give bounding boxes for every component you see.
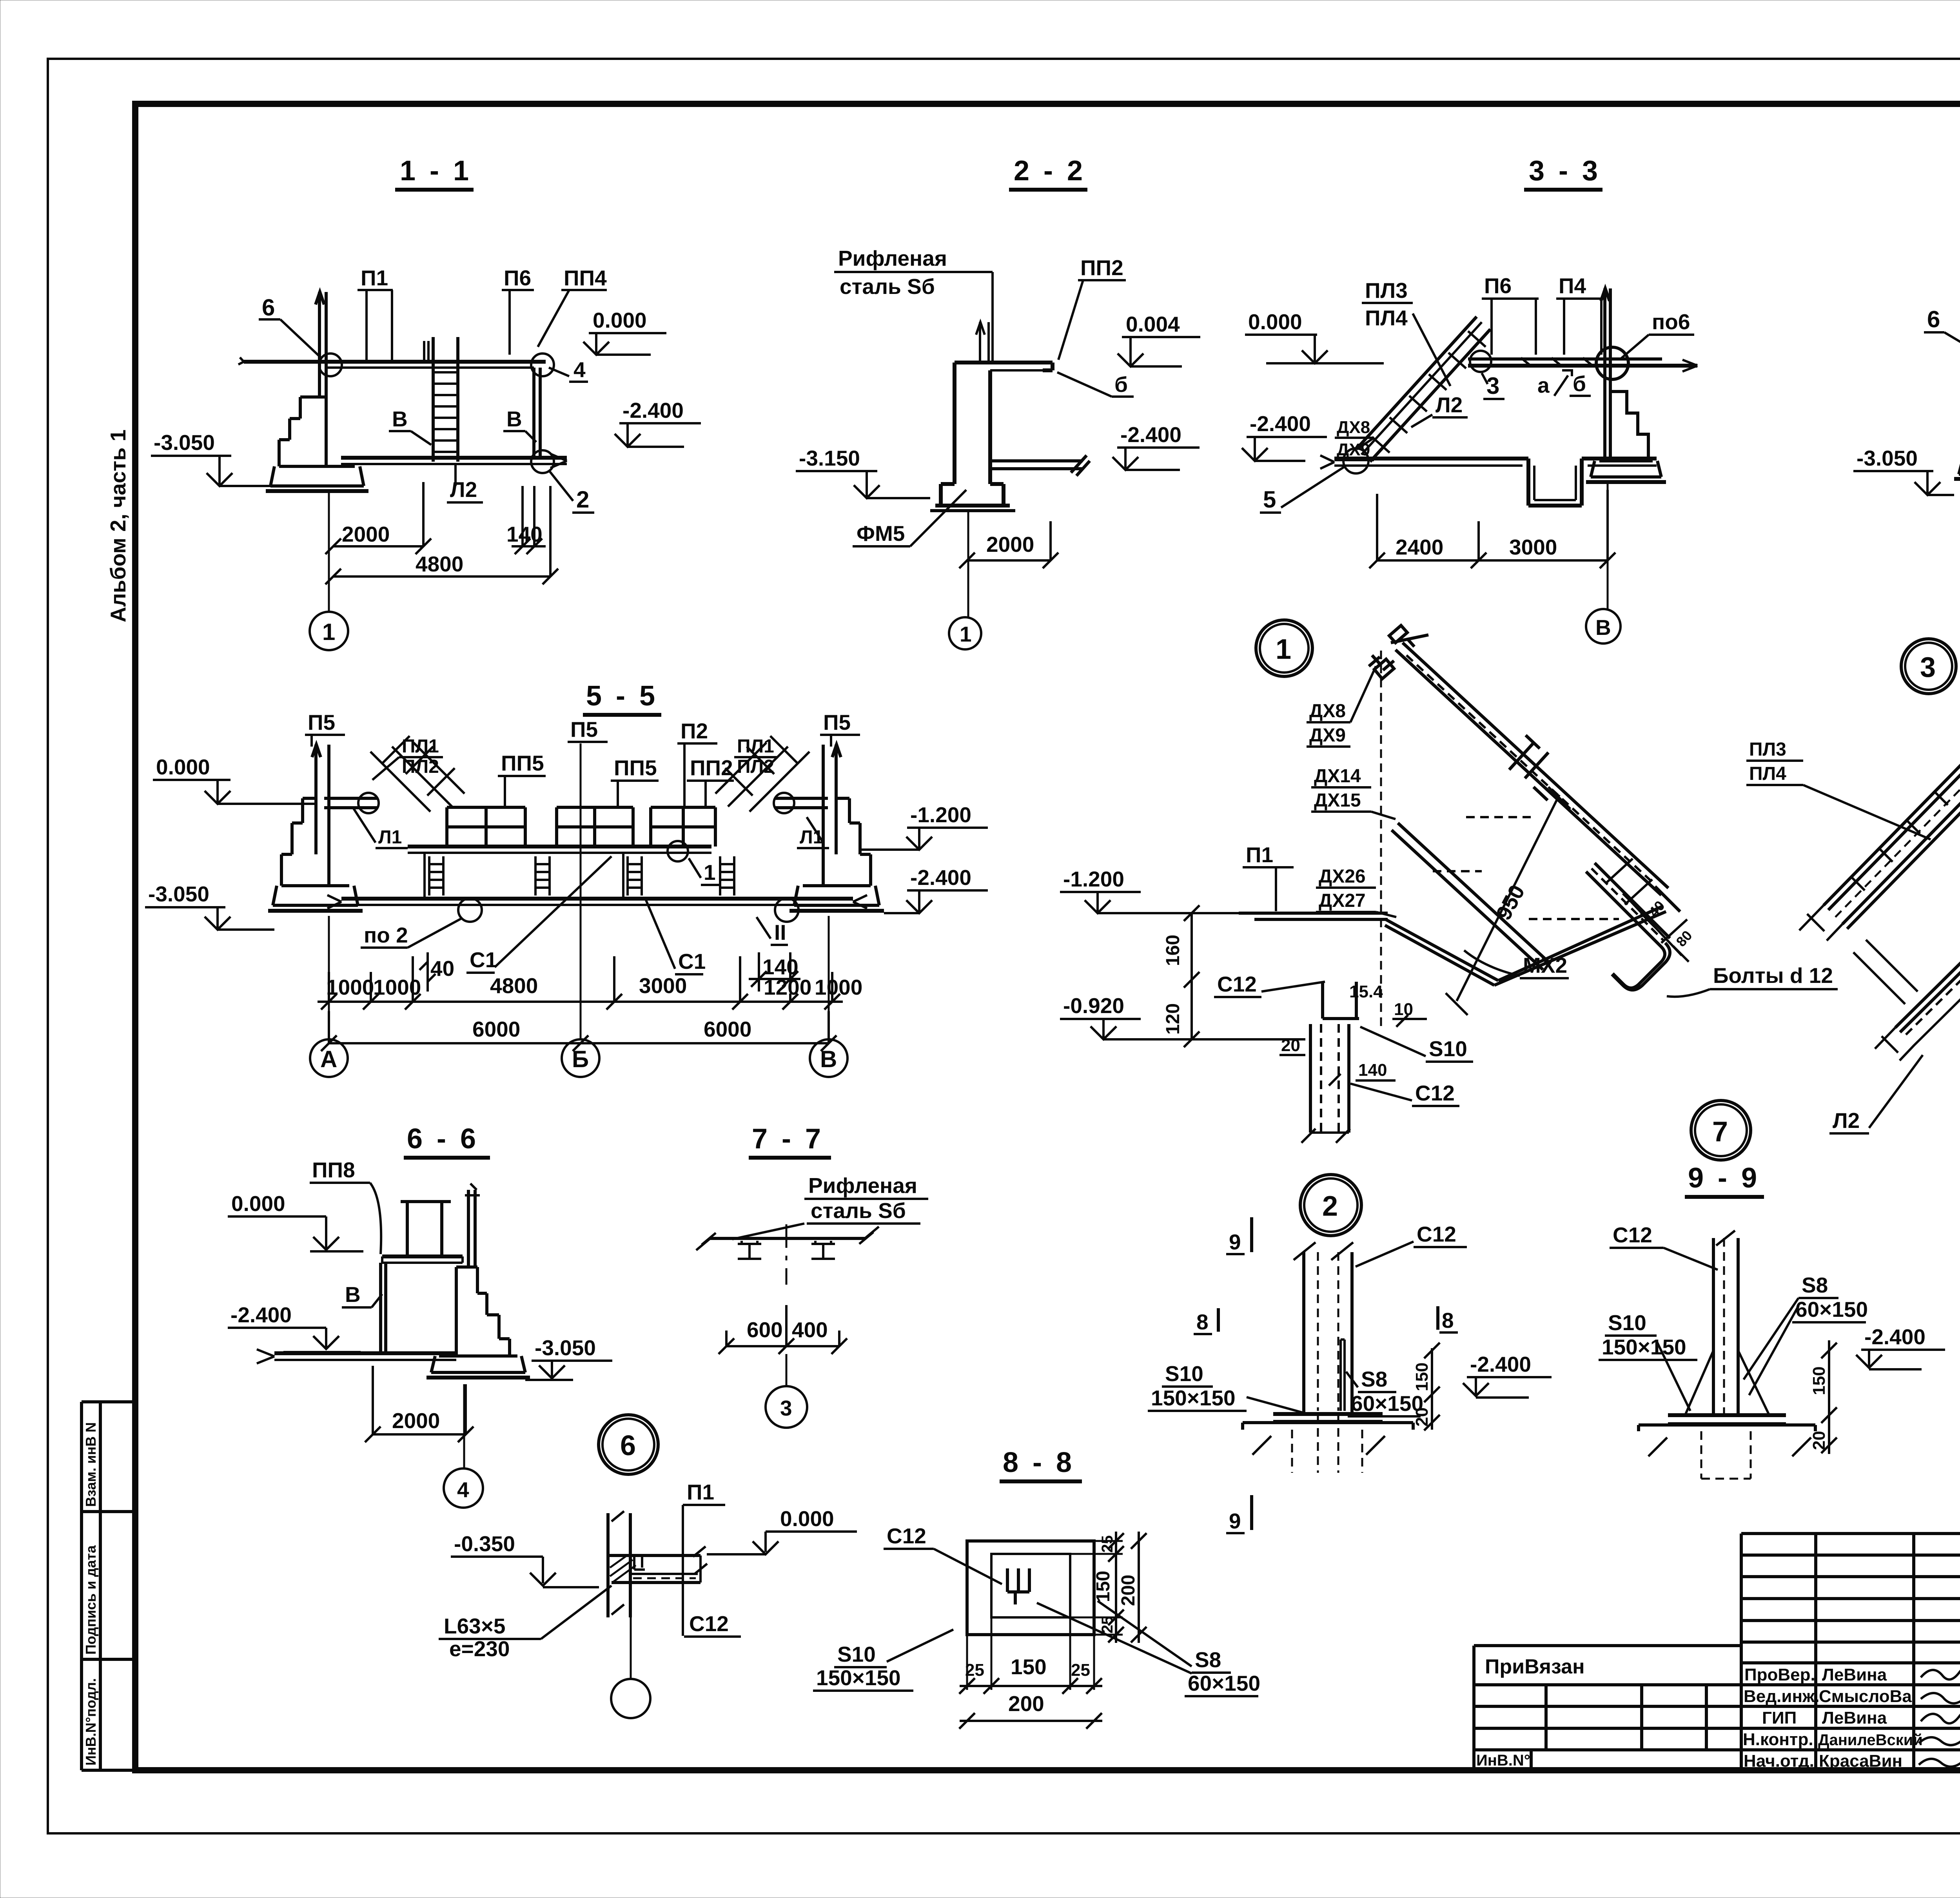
axis circle Б: [562, 1039, 599, 1077]
signature table: [1741, 1534, 1960, 1770]
mast: [316, 292, 326, 362]
signatures squiggles: [1921, 1666, 1960, 1679]
svg-text:1200: 1200: [764, 975, 811, 999]
joint circle right: [531, 353, 554, 376]
G_S55 section 5-5: [145, 680, 988, 1077]
svg-text:10: 10: [1394, 1000, 1413, 1019]
svg-text:а: а: [1537, 373, 1550, 397]
svg-text:ПЛ3: ПЛ3: [1749, 739, 1786, 760]
svg-text:ПП5: ПП5: [501, 751, 544, 775]
ladder dashed centerline: [1835, 701, 1960, 917]
svg-text:-3.150: -3.150: [799, 446, 860, 470]
left bracket: [324, 798, 377, 808]
svg-text:S8: S8: [1195, 1648, 1221, 1672]
svg-text:С12: С12: [1417, 1222, 1456, 1246]
svg-text:200: 200: [1118, 1575, 1139, 1606]
svg-text:-3.050: -3.050: [535, 1336, 596, 1360]
svg-text:П5: П5: [570, 717, 598, 741]
lower parallel stringer: [1895, 888, 1960, 1032]
vertical dash axis: [1380, 651, 1382, 1027]
svg-text:П5: П5: [823, 710, 851, 734]
left mast: [312, 745, 329, 854]
axis circle А: [310, 1039, 348, 1077]
svg-text:60×150: 60×150: [1795, 1297, 1868, 1322]
centerline: [786, 1224, 788, 1285]
svg-text:ЛеВина: ЛеВина: [1822, 1708, 1887, 1728]
floor: [274, 1351, 456, 1355]
svg-text:6000: 6000: [472, 1017, 520, 1041]
svg-text:ДХ8: ДХ8: [1309, 701, 1346, 721]
svg-text:Л1: Л1: [378, 827, 402, 848]
svg-text:П1: П1: [1246, 843, 1273, 867]
svg-text:ДХ14: ДХ14: [1314, 766, 1361, 787]
diagonal ladder: [1356, 317, 1490, 462]
svg-text:S10: S10: [1608, 1311, 1646, 1335]
svg-text:-2.400: -2.400: [1120, 422, 1181, 447]
svg-text:2000: 2000: [392, 1409, 440, 1433]
wall body: [955, 363, 990, 484]
svg-text:2: 2: [576, 486, 589, 513]
svg-text:400: 400: [792, 1318, 828, 1342]
svg-text:-2.400: -2.400: [910, 865, 971, 890]
G_S11 section 1-1: [151, 155, 701, 650]
axis line and circle 4: [463, 1384, 465, 1469]
right foundation: [794, 798, 879, 905]
pallet box 2: [557, 807, 633, 847]
svg-text:4800: 4800: [490, 973, 538, 998]
svg-text:8: 8: [1442, 1308, 1454, 1332]
joint circle floor left: [1343, 448, 1368, 473]
svg-text:В: В: [392, 407, 408, 431]
svg-text:0.000: 0.000: [231, 1191, 285, 1216]
axis line and circle В: [1607, 482, 1609, 609]
tall mast: [468, 1190, 475, 1267]
svg-text:3: 3: [780, 1396, 792, 1420]
bottom chord up to stringer end: [1494, 886, 1680, 985]
svg-text:-3.050: -3.050: [154, 430, 215, 455]
vertical dim 150 20: [1821, 1340, 1837, 1454]
svg-text:Подпись и дата: Подпись и дата: [83, 1545, 99, 1655]
svg-text:С12: С12: [689, 1612, 729, 1636]
joint circle bottom right: [531, 450, 554, 473]
hidden dashed edges: [1433, 817, 1619, 919]
svg-text:ГИП: ГИП: [1762, 1708, 1797, 1728]
svg-text:3000: 3000: [639, 973, 687, 998]
right column: [1605, 355, 1610, 461]
svg-text:СмыслоВа: СмыслоВа: [1819, 1687, 1912, 1706]
svg-text:8 - 8: 8 - 8: [1003, 1447, 1075, 1478]
svg-text:5: 5: [1263, 486, 1276, 513]
svg-text:-0.920: -0.920: [1063, 993, 1124, 1018]
svg-text:С12: С12: [1613, 1223, 1652, 1247]
foundation steps: [279, 397, 326, 466]
svg-text:ПЛ4: ПЛ4: [1365, 306, 1408, 330]
svg-text:В: В: [1595, 615, 1611, 640]
svg-text:4800: 4800: [416, 552, 463, 576]
floor joint circle right: [775, 898, 799, 922]
svg-text:3: 3: [1920, 652, 1936, 683]
ladder: [433, 337, 458, 462]
svg-text:ПроВер.: ПроВер.: [1744, 1665, 1815, 1684]
svg-text:5 - 5: 5 - 5: [586, 680, 658, 712]
svg-text:1: 1: [1276, 634, 1291, 665]
svg-text:150: 150: [1011, 1655, 1047, 1679]
svg-text:S10: S10: [1429, 1037, 1467, 1061]
svg-text:600: 600: [747, 1318, 783, 1342]
deck bend diagonal: [1385, 919, 1498, 985]
main beam: [1468, 357, 1662, 361]
beam line: [710, 1237, 865, 1240]
svg-text:С12: С12: [887, 1524, 926, 1548]
pallet box 3: [651, 807, 715, 847]
svg-text:Нач.отд.: Нач.отд.: [1744, 1751, 1814, 1771]
svg-text:25: 25: [1099, 1535, 1116, 1553]
connectors between flights: [1853, 940, 1918, 1004]
svg-text:II: II: [774, 920, 786, 944]
svg-text:0.000: 0.000: [593, 308, 647, 332]
svg-text:-3.050: -3.050: [148, 882, 209, 906]
svg-text:Болты d 12: Болты d 12: [1713, 963, 1833, 988]
sidebar cells: [82, 1402, 135, 1770]
svg-text:В: В: [820, 1046, 837, 1072]
inner rect: [991, 1554, 1070, 1617]
svg-text:ПП8: ПП8: [312, 1158, 355, 1182]
svg-text:б: б: [1573, 372, 1586, 396]
svg-text:Л2: Л2: [1833, 1108, 1860, 1133]
svg-text:по6: по6: [1652, 310, 1690, 334]
G_S44 section 4-4: [1853, 155, 1960, 694]
right foundation steps: [456, 1267, 510, 1356]
base plate: [1273, 1412, 1383, 1416]
svg-text:П1: П1: [361, 266, 388, 290]
node circle 7: [1691, 1100, 1751, 1160]
svg-text:Б: Б: [572, 1046, 589, 1072]
I profile left: [738, 1241, 761, 1259]
svg-text:0.000: 0.000: [1248, 310, 1302, 334]
bolt channel piece: [1586, 863, 1670, 990]
svg-text:6: 6: [262, 294, 275, 321]
svg-text:ИнВ.N°: ИнВ.N°: [1476, 1752, 1530, 1769]
node circle 3: [1901, 639, 1956, 694]
svg-text:е=230: е=230: [449, 1637, 510, 1661]
G_TITLEBLOCK: [1474, 1534, 1960, 1773]
axis line and circle 1: [967, 511, 969, 618]
centerline and circle: [630, 1617, 632, 1679]
column: [1713, 1238, 1738, 1415]
svg-text:С1: С1: [678, 949, 706, 973]
vertical dims 120 160: [1184, 905, 1200, 1047]
svg-text:П6: П6: [1484, 274, 1512, 298]
svg-text:-0.350: -0.350: [454, 1532, 515, 1556]
svg-text:ПП2: ПП2: [1080, 256, 1123, 280]
gussets: [1686, 1351, 1769, 1414]
svg-text:ПриВязан: ПриВязан: [1485, 1655, 1585, 1678]
svg-text:Н.контр.: Н.контр.: [1743, 1730, 1813, 1749]
svg-text:-2.400: -2.400: [622, 398, 684, 422]
svg-text:150: 150: [1809, 1367, 1829, 1395]
svg-text:25: 25: [1071, 1661, 1090, 1680]
svg-text:-2.400: -2.400: [1470, 1352, 1531, 1376]
svg-text:8: 8: [1196, 1310, 1209, 1334]
G_S66 section 6-6: [228, 1123, 658, 1508]
svg-text:3000: 3000: [1509, 535, 1557, 559]
svg-text:С1: С1: [470, 948, 497, 972]
svg-text:ФМ5: ФМ5: [857, 521, 905, 546]
right dims: [1070, 1541, 1123, 1635]
node circle 2: [1300, 1175, 1361, 1236]
svg-text:Альбом 2, часть 1: Альбом 2, часть 1: [106, 430, 130, 622]
small bracket: [634, 1557, 645, 1570]
top bracket pieces: [1369, 655, 1394, 679]
left foundation: [273, 798, 358, 905]
svg-text:сталь Sб: сталь Sб: [840, 274, 935, 299]
svg-text:-2.400: -2.400: [1864, 1325, 1926, 1349]
svg-text:П5: П5: [308, 710, 335, 734]
left post below: [381, 1263, 386, 1353]
outer rect: [967, 1541, 1094, 1635]
node circle 1: [1256, 620, 1312, 676]
foundation slab: [1639, 1425, 1815, 1431]
svg-text:9: 9: [1229, 1509, 1241, 1533]
svg-text:6: 6: [620, 1430, 636, 1461]
svg-text:П2: П2: [681, 719, 708, 743]
svg-text:ПП5: ПП5: [614, 756, 657, 780]
svg-text:950: 950: [1491, 881, 1530, 924]
svg-text:200: 200: [1008, 1691, 1044, 1716]
right mast: [823, 745, 841, 854]
svg-text:S8: S8: [1361, 1367, 1387, 1391]
G_N6 node 6 detail: [439, 1480, 857, 1718]
anchor symbol: [1007, 1568, 1029, 1604]
svg-text:ПП4: ПП4: [564, 266, 607, 290]
svg-text:Л2: Л2: [1436, 393, 1463, 417]
column under deck: [1310, 982, 1359, 1133]
foundation base trapezoid: [270, 466, 364, 486]
svg-text:9 - 9: 9 - 9: [1688, 1162, 1760, 1194]
svg-text:Взам. инВ N: Взам. инВ N: [83, 1422, 99, 1507]
svg-text:по 2: по 2: [364, 923, 408, 947]
svg-text:120: 120: [1163, 1003, 1183, 1035]
G_S88 section 8-8: [813, 1447, 1260, 1729]
floor slab right: [990, 455, 1090, 476]
right foundation steps: [1610, 392, 1648, 461]
svg-text:-2.400: -2.400: [230, 1303, 292, 1327]
hanger strips below deck: [425, 853, 443, 899]
svg-text:S8: S8: [1802, 1273, 1828, 1297]
wall top ledge: [955, 363, 1053, 370]
svg-text:160: 160: [1163, 935, 1183, 966]
svg-text:-3.050: -3.050: [1857, 446, 1918, 470]
G_S77 section 7-7: [696, 1123, 928, 1428]
svg-text:2 - 2: 2 - 2: [1014, 155, 1086, 187]
svg-text:25: 25: [1099, 1616, 1116, 1634]
svg-text:Рифленая: Рифленая: [838, 246, 947, 270]
joint circle big: [1596, 347, 1628, 379]
svg-text:150: 150: [1093, 1571, 1114, 1602]
svg-text:2000: 2000: [986, 532, 1034, 557]
svg-text:С12: С12: [1415, 1081, 1455, 1105]
svg-text:ИнВ.N°подл.: ИнВ.N°подл.: [83, 1678, 99, 1766]
I profile right: [811, 1241, 835, 1259]
joint circle small: [1470, 351, 1491, 372]
foundation mast legs: [319, 362, 326, 397]
bolt dims 40 80: [1605, 859, 1689, 962]
svg-text:7: 7: [1712, 1116, 1728, 1148]
diagonal beam top: [1396, 643, 1668, 895]
axis line and circle 1: [328, 491, 330, 612]
G_N1 node 1: [1060, 620, 1838, 1236]
svg-text:П1: П1: [687, 1480, 714, 1504]
svg-text:1 - 1: 1 - 1: [400, 155, 472, 187]
ladder lower end extension: [1799, 905, 1842, 941]
svg-text:ДХ8: ДХ8: [1337, 418, 1370, 437]
platform slab: [382, 1254, 463, 1258]
left diagonal panel: [370, 736, 465, 812]
ladder rail 2: [1842, 708, 1960, 929]
svg-text:6 - 6: 6 - 6: [407, 1123, 479, 1155]
svg-text:S10: S10: [1165, 1361, 1203, 1386]
svg-text:150×150: 150×150: [1602, 1335, 1686, 1359]
G_N7 node 7 section 9-9: [1599, 1100, 1945, 1479]
svg-text:2: 2: [1322, 1191, 1338, 1222]
ladder rungs: [1851, 707, 1960, 890]
svg-text:б: б: [1114, 372, 1128, 397]
svg-text:ДХ26: ДХ26: [1319, 866, 1366, 887]
base plate: [1668, 1413, 1786, 1417]
horizontal slab: [609, 1555, 701, 1583]
svg-text:20: 20: [1809, 1431, 1829, 1450]
svg-text:КрасаВин: КрасаВин: [1819, 1751, 1902, 1771]
vertical dim 150 20: [1424, 1343, 1440, 1430]
svg-text:ПЛ3: ПЛ3: [1365, 278, 1408, 303]
svg-text:1: 1: [960, 622, 972, 646]
diagonal beam middle: [1392, 823, 1549, 970]
svg-text:9: 9: [1229, 1230, 1241, 1254]
corner hatch: [610, 1556, 636, 1583]
right bracket: [775, 798, 828, 808]
svg-text:А: А: [320, 1046, 337, 1072]
right post: [1601, 288, 1610, 355]
svg-text:15.4: 15.4: [1349, 982, 1383, 1001]
svg-text:ДХ27: ДХ27: [1319, 890, 1366, 911]
svg-text:4: 4: [457, 1477, 469, 1502]
dim 950 diagonal: [1446, 787, 1570, 1015]
svg-text:150×150: 150×150: [1151, 1386, 1236, 1410]
wall footing: [935, 484, 1010, 506]
S8 rib inside column: [1341, 1340, 1345, 1411]
pallet box 1: [447, 807, 525, 847]
svg-text:-1.200: -1.200: [1063, 867, 1124, 891]
svg-text:7 - 7: 7 - 7: [752, 1123, 824, 1155]
perpendicular connector on beam: [1509, 735, 1548, 800]
svg-text:1: 1: [704, 860, 716, 885]
deck: [408, 845, 711, 848]
node circle 6: [599, 1415, 658, 1474]
svg-text:140: 140: [1358, 1060, 1387, 1080]
svg-text:2000: 2000: [342, 522, 390, 546]
bottom dims: [967, 1617, 1094, 1690]
svg-text:МХ2: МХ2: [1523, 953, 1567, 977]
axis circle В: [810, 1039, 848, 1077]
svg-text:20: 20: [1412, 1407, 1432, 1427]
svg-text:6000: 6000: [704, 1017, 751, 1041]
svg-text:Вед.инж.: Вед.инж.: [1744, 1687, 1819, 1706]
deck beam 0.000: [244, 360, 546, 364]
vertical angle piece: [608, 1513, 630, 1617]
right diagonal panel: [715, 736, 809, 812]
floor joint circle left: [458, 898, 482, 922]
G_N3 node 3 big ladder: [1746, 683, 1960, 1156]
section mark 9 top: [1250, 1217, 1253, 1252]
svg-text:0.004: 0.004: [1126, 312, 1180, 336]
riffled sheet post: [976, 322, 989, 363]
G_N2 node 2 column base: [1148, 1217, 1552, 1533]
svg-text:-2.400: -2.400: [1250, 412, 1311, 436]
column: [1304, 1252, 1352, 1414]
axis line and circle 3: [786, 1354, 788, 1386]
joint circle left: [319, 353, 342, 376]
svg-text:150×150: 150×150: [816, 1666, 901, 1690]
G_S22 section 2-2: [796, 155, 1200, 649]
svg-text:ПЛ4: ПЛ4: [1749, 763, 1786, 784]
svg-text:В: В: [345, 1282, 361, 1307]
floor with pit: [1334, 459, 1657, 506]
small deck joint circle right: [668, 841, 688, 861]
ladder rail 1: [1824, 689, 1960, 910]
svg-text:2400: 2400: [1396, 535, 1443, 559]
svg-text:П4: П4: [1559, 274, 1586, 298]
svg-text:ЛеВина: ЛеВина: [1822, 1665, 1887, 1684]
section mark 9 bottom: [1250, 1495, 1253, 1530]
svg-text:ДХ9: ДХ9: [1309, 725, 1346, 746]
foundation slab: [1243, 1423, 1413, 1430]
floor slab -2.400: [341, 456, 567, 460]
svg-text:3 - 3: 3 - 3: [1529, 155, 1601, 187]
svg-text:С12: С12: [1217, 972, 1257, 996]
svg-text:0.000: 0.000: [780, 1506, 834, 1531]
svg-text:сталь Sб: сталь Sб: [811, 1198, 906, 1223]
right column: [534, 368, 540, 458]
svg-text:1000: 1000: [373, 975, 421, 999]
svg-text:3: 3: [1486, 373, 1499, 399]
G_S33 section 3-3: [1242, 155, 1697, 644]
svg-text:6: 6: [1927, 306, 1940, 332]
svg-text:0.000: 0.000: [156, 755, 210, 779]
svg-text:Рифленая: Рифленая: [808, 1173, 917, 1198]
deck horizontal beam: [1239, 913, 1388, 919]
svg-text:ДХ15: ДХ15: [1314, 790, 1361, 811]
svg-text:-1.200: -1.200: [910, 803, 971, 827]
svg-text:4: 4: [573, 357, 586, 382]
svg-text:60×150: 60×150: [1188, 1671, 1260, 1695]
svg-text:20: 20: [1281, 1036, 1300, 1055]
svg-text:ДанилеВский: ДанилеВский: [1818, 1731, 1923, 1749]
portal posts: [401, 1200, 451, 1256]
svg-text:Л2: Л2: [450, 477, 477, 502]
svg-text:П6: П6: [504, 266, 531, 290]
axis lines: [329, 743, 829, 1039]
floor: [341, 897, 853, 901]
svg-text:L63×5: L63×5: [444, 1614, 505, 1638]
svg-text:В: В: [506, 407, 522, 431]
privyazan box: [1474, 1646, 1741, 1770]
svg-text:1: 1: [322, 619, 335, 645]
svg-text:S10: S10: [837, 1642, 876, 1666]
svg-text:25: 25: [965, 1661, 984, 1680]
svg-text:150: 150: [1412, 1363, 1432, 1391]
